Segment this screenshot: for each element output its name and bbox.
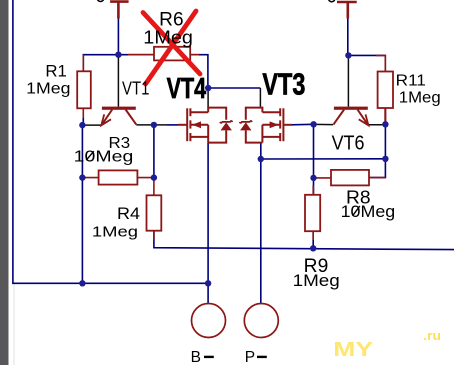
svg-text:1Meg: 1Meg — [293, 272, 340, 290]
label R8 value — [341, 202, 396, 221]
resistor R9 — [305, 186, 320, 241]
wire power stem left — [117, 16, 119, 55]
transistor VT6 — [333, 107, 368, 126]
label VT1 — [122, 79, 149, 99]
red cross over R6 — [143, 11, 200, 84]
wire VT1 emitter node — [82, 124, 100, 126]
transistor VT1 — [101, 107, 136, 126]
resistor R11 — [376, 55, 393, 121]
label R4 — [117, 204, 140, 223]
wire VT4 drain — [207, 88, 209, 108]
wire VT6 collector stub — [314, 123, 333, 125]
top text fragment right — [329, 0, 335, 2]
wire top-left node horizontal (R1 top to R6 left) — [83, 55, 154, 72]
wire VT3 source down to P- — [260, 143, 262, 304]
label R11 — [396, 72, 426, 89]
label VT6 — [332, 132, 365, 154]
svg-text:10Meg: 10Meg — [341, 202, 396, 221]
svg-text:VT4: VT4 — [167, 73, 207, 105]
wire VT4 gate — [167, 124, 178, 126]
svg-text:1Meg: 1Meg — [143, 28, 193, 48]
faint cell border line below rail — [13, 283, 15, 365]
label R3 value — [74, 149, 134, 166]
svg-text:B: B — [191, 349, 201, 365]
label R6 value — [143, 28, 193, 48]
svg-text:VT1: VT1 — [122, 79, 149, 99]
power symbol right — [337, 2, 357, 19]
terminal circle B- — [192, 304, 226, 338]
terminal circle P- — [244, 304, 278, 338]
label R4 value — [92, 223, 138, 240]
mosfet VT3 — [240, 108, 293, 143]
svg-text:1Meg: 1Meg — [92, 223, 138, 240]
svg-text:VT6: VT6 — [332, 132, 365, 154]
wire left column vertical — [81, 125, 83, 283]
label R8 — [346, 187, 371, 207]
wire VT6 emitter stub — [368, 124, 385, 126]
label VT3 — [262, 66, 305, 101]
label P- — [245, 349, 267, 365]
label R6 — [159, 9, 183, 30]
wire VT4 source down to B- — [207, 143, 209, 304]
wire R11 bottom to emitter node — [384, 108, 386, 124]
mosfet VT4 — [178, 108, 232, 143]
label R1 value — [26, 81, 70, 98]
label R3 — [109, 135, 131, 152]
top text fragment left — [97, 0, 103, 2]
wire R6 right to drain node — [190, 55, 208, 88]
wire VT1 base — [117, 55, 119, 107]
wire VT3 gate to VT6 collector node — [291, 123, 314, 126]
slashed zero of R8 value — [353, 206, 360, 216]
wire left vertical rail — [13, 0, 208, 283]
resistor R1 — [77, 55, 91, 118]
wire R1 bottom lead lower — [82, 117, 84, 125]
wire VT3 source node to R11 column — [261, 158, 386, 160]
wire R9 bottom to bus — [312, 231, 314, 248]
label R9 value — [293, 272, 340, 290]
resistor R3 — [82, 170, 153, 184]
label VT4 — [167, 73, 207, 105]
resistor R6 — [128, 47, 199, 61]
svg-text:R1: R1 — [45, 62, 67, 81]
wire R8 left node column — [313, 124, 315, 195]
svg-text:VT3: VT3 — [262, 66, 305, 101]
wire VT3 drain — [259, 88, 261, 108]
label B- — [191, 349, 214, 365]
label R9 — [304, 256, 329, 277]
label R1 — [45, 62, 67, 81]
wire right node to R11 top — [348, 55, 385, 71]
svg-text:P: P — [245, 349, 255, 365]
label R11 value — [399, 90, 441, 107]
watermark MY — [333, 338, 373, 361]
svg-text:R4: R4 — [117, 204, 140, 223]
wire R11 column down to R8 right — [369, 124, 385, 177]
wire power stem right — [347, 16, 349, 55]
wire VT6 base — [347, 55, 349, 106]
resistor R4 — [147, 178, 162, 240]
power symbol left — [110, 2, 129, 19]
wire R4 bottom to bottom bus — [154, 231, 454, 250]
svg-text:10Meg: 10Meg — [74, 149, 134, 166]
resistor R8 — [314, 170, 386, 186]
svg-text:.ru: .ru — [423, 328, 441, 343]
watermark .ru — [423, 328, 441, 343]
slashed zero of R3 value — [86, 151, 94, 160]
wire drain bus to VT3 — [208, 87, 260, 89]
wire R3 right node vertical — [153, 125, 155, 178]
svg-text:R11: R11 — [396, 72, 426, 89]
svg-text:1Meg: 1Meg — [26, 81, 70, 98]
svg-text:MY: MY — [333, 338, 373, 361]
left gray border bar — [0, 0, 9, 365]
wire VT1 collector to gate node — [136, 124, 167, 126]
svg-text:1Meg: 1Meg — [399, 90, 441, 107]
